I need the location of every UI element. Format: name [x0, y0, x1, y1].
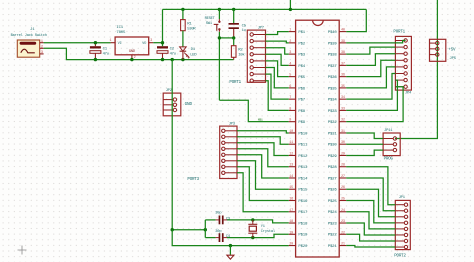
svg-text:21: 21 — [341, 243, 345, 247]
svg-text:PORT1: PORT1 — [393, 30, 405, 34]
svg-text:47u: 47u — [170, 52, 176, 56]
capacitor C3 — [216, 216, 227, 225]
wire — [346, 133, 383, 139]
svg-text:30p: 30p — [215, 212, 221, 216]
wire — [205, 237, 215, 239]
wire — [44, 48, 234, 59]
svg-text:3: 3 — [150, 39, 152, 43]
svg-text:P$26: P$26 — [328, 188, 338, 193]
svg-text:P$36: P$36 — [328, 75, 338, 80]
svg-text:P$37: P$37 — [328, 64, 338, 69]
connector JP3 — [220, 126, 237, 178]
svg-text:P$25: P$25 — [328, 199, 338, 204]
wire — [266, 74, 289, 99]
wire — [346, 9, 366, 31]
wire to top edge — [289, 0, 291, 9]
wire — [346, 143, 383, 145]
svg-text:7805: 7805 — [116, 31, 126, 35]
svg-text:26: 26 — [341, 186, 345, 190]
svg-text:P$40: P$40 — [328, 30, 338, 35]
svg-text:P$9: P$9 — [298, 120, 305, 125]
svg-text:36: 36 — [341, 74, 345, 78]
wire — [266, 81, 289, 111]
wire — [219, 100, 288, 121]
junction — [204, 228, 207, 231]
wire — [266, 32, 289, 35]
wire — [172, 230, 289, 246]
svg-text:GND: GND — [129, 50, 136, 54]
svg-text:P$31: P$31 — [328, 131, 338, 136]
svg-text:P$39: P$39 — [328, 41, 338, 46]
svg-text:P$7: P$7 — [298, 98, 305, 103]
pushbutton SW1 — [214, 9, 221, 31]
connector JP4 — [395, 36, 411, 90]
wire +5V right — [395, 0, 438, 139]
svg-text:P$22: P$22 — [328, 233, 338, 238]
microcontroller U1 DIP-40 — [289, 20, 346, 257]
wire — [346, 234, 395, 241]
svg-text:18: 18 — [289, 220, 293, 224]
capacitor C4 — [216, 233, 227, 242]
wire — [172, 229, 205, 231]
wire — [205, 219, 215, 221]
junction — [218, 36, 221, 39]
junction — [94, 41, 97, 44]
wire XTAL1 — [227, 234, 289, 237]
connector JP1 — [395, 200, 410, 249]
resistor R1 — [181, 9, 186, 47]
svg-text:4: 4 — [289, 62, 291, 66]
wire — [346, 223, 395, 235]
junction — [289, 8, 292, 11]
svg-text:16: 16 — [289, 198, 293, 202]
wire — [346, 87, 403, 122]
svg-text:17: 17 — [289, 209, 293, 213]
wire — [237, 137, 289, 144]
svg-text:P$13: P$13 — [298, 165, 308, 170]
svg-text:P$16: P$16 — [298, 199, 308, 204]
svg-text:P$17: P$17 — [298, 210, 308, 215]
ground symbol — [227, 246, 234, 260]
wire — [237, 131, 289, 133]
svg-text:1u: 1u — [242, 29, 246, 33]
wire — [219, 37, 233, 39]
origin cross — [18, 246, 27, 255]
junction — [181, 8, 184, 11]
wire — [237, 167, 289, 201]
svg-text:6: 6 — [289, 85, 291, 89]
svg-text:30: 30 — [341, 141, 345, 145]
LED D1 — [180, 47, 190, 60]
svg-text:25: 25 — [341, 198, 345, 202]
svg-text:P$1: P$1 — [298, 30, 305, 35]
capacitor C1 — [90, 43, 101, 60]
svg-text:1: 1 — [289, 29, 291, 33]
wire — [346, 74, 395, 100]
wire — [346, 189, 395, 217]
svg-text:P$15: P$15 — [298, 188, 308, 193]
svg-text:5: 5 — [289, 74, 291, 78]
svg-text:47u: 47u — [103, 52, 109, 56]
svg-text:P$6: P$6 — [298, 86, 305, 91]
svg-text:10: 10 — [289, 130, 293, 134]
svg-text:P$35: P$35 — [328, 86, 338, 91]
svg-text:32: 32 — [341, 119, 345, 123]
junction — [130, 58, 133, 61]
junction — [232, 36, 235, 39]
svg-text:PROG: PROG — [384, 157, 394, 161]
connector JP5 — [430, 39, 446, 61]
wire +5V rail — [163, 8, 367, 10]
svg-text:33: 33 — [341, 107, 345, 111]
wire — [153, 42, 162, 44]
wire — [346, 246, 395, 248]
svg-text:29: 29 — [341, 152, 345, 156]
svg-text:P$28: P$28 — [328, 165, 338, 170]
svg-text:P$27: P$27 — [328, 176, 338, 181]
svg-text:9: 9 — [289, 119, 291, 123]
svg-text:23: 23 — [341, 220, 345, 224]
svg-text:P$38: P$38 — [328, 53, 338, 58]
wire — [346, 150, 383, 155]
svg-text:2: 2 — [289, 40, 291, 44]
svg-text:P$33: P$33 — [328, 109, 338, 114]
wire — [346, 41, 405, 43]
svg-text:P$24: P$24 — [328, 210, 338, 215]
svg-text:PORT2: PORT2 — [394, 254, 406, 258]
svg-text:PORT3: PORT3 — [187, 178, 199, 182]
connector JP11 — [383, 133, 400, 156]
svg-text:P$3: P$3 — [298, 53, 305, 58]
svg-text:JP7: JP7 — [258, 27, 264, 31]
svg-text:3: 3 — [289, 51, 291, 55]
svg-text:28: 28 — [341, 164, 345, 168]
wire — [237, 155, 289, 178]
voltage regulator IC1 — [110, 37, 154, 60]
junction — [94, 58, 97, 61]
wire — [346, 80, 397, 110]
svg-text:40: 40 — [341, 29, 345, 33]
connector JP7 — [247, 30, 265, 82]
svg-text:37: 37 — [341, 62, 345, 66]
wire — [237, 143, 289, 156]
svg-text:34: 34 — [341, 96, 345, 100]
svg-text:P$23: P$23 — [328, 221, 338, 226]
junction — [181, 58, 184, 61]
svg-text:19: 19 — [289, 231, 293, 235]
wire +5V riser — [162, 9, 164, 46]
svg-text:Crystal: Crystal — [261, 229, 276, 234]
svg-text:27: 27 — [341, 175, 345, 179]
wire — [346, 60, 395, 76]
junction — [161, 41, 164, 44]
svg-text:1: 1 — [110, 39, 112, 43]
svg-text:P$5: P$5 — [298, 75, 305, 80]
svg-text:7: 7 — [289, 96, 291, 100]
junction — [251, 218, 254, 221]
svg-text:JP11: JP11 — [384, 129, 393, 133]
wire — [346, 178, 395, 211]
svg-text:P$20: P$20 — [298, 244, 308, 249]
svg-text:2: 2 — [134, 56, 136, 60]
wire — [266, 61, 289, 77]
junction — [232, 8, 235, 11]
svg-text:RESET: RESET — [205, 17, 216, 21]
wire XTAL2 — [227, 220, 289, 223]
junction — [218, 8, 221, 11]
svg-text:+5V: +5V — [448, 48, 456, 52]
resistor R2 — [231, 38, 236, 60]
crystal Y1 — [248, 220, 257, 238]
svg-text:530R: 530R — [187, 27, 196, 31]
capacitor C2 — [157, 46, 168, 59]
svg-text:P$18: P$18 — [298, 221, 308, 226]
svg-text:P$19: P$19 — [298, 233, 308, 238]
svg-text:VI: VI — [118, 42, 122, 46]
svg-text:P$4: P$4 — [298, 64, 305, 69]
svg-text:38: 38 — [341, 51, 345, 55]
svg-text:GND: GND — [185, 102, 193, 107]
svg-text:P$12: P$12 — [298, 154, 308, 159]
connector JP2 — [163, 93, 181, 116]
wire RST — [218, 32, 220, 100]
wire — [266, 54, 289, 65]
junction — [229, 244, 232, 247]
svg-text:10k: 10k — [238, 53, 245, 58]
wire — [266, 48, 289, 54]
junction — [171, 228, 174, 231]
svg-text:P$14: P$14 — [298, 176, 308, 181]
wire — [346, 167, 395, 205]
wire — [346, 54, 395, 66]
wire VIN — [44, 42, 111, 44]
svg-text:13: 13 — [289, 164, 293, 168]
svg-text:JP3: JP3 — [229, 123, 236, 127]
svg-text:24: 24 — [341, 209, 345, 213]
svg-text:20: 20 — [289, 243, 293, 247]
svg-text:14: 14 — [289, 175, 293, 179]
wire — [237, 149, 289, 167]
svg-text:P$2: P$2 — [298, 41, 305, 46]
svg-text:11: 11 — [289, 141, 293, 145]
connector J1 barrel jack — [17, 40, 44, 57]
svg-text:Barrel Jack Switch: Barrel Jack Switch — [11, 33, 47, 38]
svg-text:12: 12 — [289, 152, 293, 156]
svg-text:JP5: JP5 — [449, 57, 456, 61]
junction — [251, 236, 254, 239]
wire — [237, 173, 289, 212]
svg-text:PORT1: PORT1 — [229, 81, 241, 85]
svg-text:P$30: P$30 — [328, 143, 338, 148]
wire — [346, 212, 395, 229]
wire GND drop — [171, 60, 173, 230]
wire — [237, 161, 289, 189]
svg-text:LED: LED — [190, 53, 197, 57]
wire — [346, 47, 395, 54]
wire — [266, 41, 289, 43]
svg-text:P$29: P$29 — [328, 154, 338, 159]
svg-text:15: 15 — [289, 186, 293, 190]
junction — [161, 58, 164, 61]
svg-text:JP4: JP4 — [405, 92, 412, 96]
svg-text:P$8: P$8 — [298, 109, 305, 114]
svg-text:P$34: P$34 — [328, 98, 338, 103]
svg-text:8: 8 — [289, 107, 291, 111]
svg-text:31: 31 — [341, 130, 345, 134]
svg-text:22: 22 — [341, 231, 345, 235]
svg-text:P$21: P$21 — [328, 244, 338, 249]
svg-text:P$11: P$11 — [298, 143, 308, 148]
wire — [346, 201, 395, 223]
wire — [346, 67, 395, 88]
svg-text:30p: 30p — [215, 230, 221, 234]
svg-text:IC1: IC1 — [116, 26, 123, 30]
junction — [171, 58, 174, 61]
svg-text:P$32: P$32 — [328, 120, 338, 125]
svg-text:SW1: SW1 — [206, 22, 213, 26]
capacitor C5 — [229, 9, 239, 38]
svg-text:35: 35 — [341, 85, 345, 89]
svg-text:N$1: N$1 — [258, 117, 263, 121]
wire — [204, 220, 206, 238]
wire — [266, 68, 289, 88]
svg-text:P$10: P$10 — [298, 131, 308, 136]
svg-text:JP1: JP1 — [399, 196, 406, 200]
svg-text:39: 39 — [341, 40, 345, 44]
